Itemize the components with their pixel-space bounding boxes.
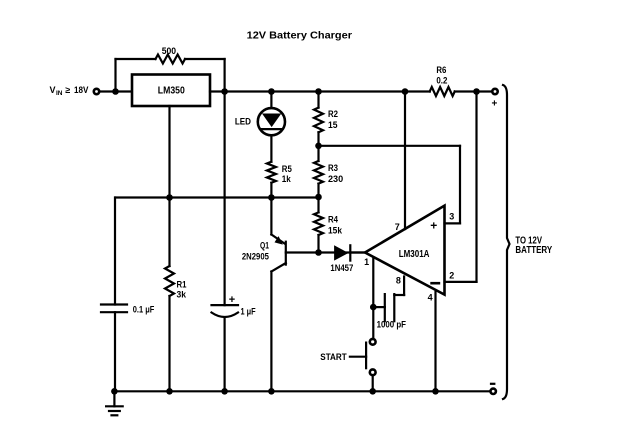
wire bottom rail xyxy=(114,390,490,392)
svg-text:≥: ≥ xyxy=(65,85,70,95)
node pin7 branch xyxy=(402,88,409,95)
node ground junction xyxy=(111,388,118,395)
svg-text:7: 7 xyxy=(395,222,400,232)
node collector bottom xyxy=(268,388,275,395)
brace TO 12V BATTERY xyxy=(503,85,552,399)
svg-text:R4: R4 xyxy=(328,214,338,224)
svg-text:R1: R1 xyxy=(177,279,187,289)
svg-text:0.1 μF: 0.1 μF xyxy=(133,305,155,315)
svg-text:1000 pF: 1000 pF xyxy=(377,320,407,330)
node R6 right junction xyxy=(473,88,480,95)
svg-text:Q1: Q1 xyxy=(260,241,269,251)
node LED branch xyxy=(268,88,275,95)
capacitor 1uF xyxy=(212,92,257,392)
resistor R3 xyxy=(314,161,343,212)
node R2 branch xyxy=(315,88,322,95)
svg-text:4: 4 xyxy=(428,293,433,303)
ground xyxy=(106,391,123,415)
svg-text:15: 15 xyxy=(328,120,338,130)
LED xyxy=(235,92,285,162)
node output junction xyxy=(221,88,228,95)
svg-text:2: 2 xyxy=(449,270,454,280)
svg-text:8: 8 xyxy=(396,276,401,286)
svg-text:1: 1 xyxy=(364,257,369,267)
node pin4 bottom xyxy=(432,388,439,395)
svg-text:0.2: 0.2 xyxy=(436,76,447,86)
resistor R2 xyxy=(314,92,338,162)
node input junction xyxy=(112,88,119,95)
resistor 500 feedback loop xyxy=(116,46,225,92)
svg-text:R6: R6 xyxy=(436,65,446,75)
svg-text:LM301A: LM301A xyxy=(399,249,430,260)
input terminal VIN xyxy=(50,85,100,97)
pin 3 wire xyxy=(319,146,461,224)
transistor Q1 2N2905 xyxy=(242,198,286,392)
svg-text:1N457: 1N457 xyxy=(330,263,353,273)
node emitter junction xyxy=(268,194,275,201)
wire base lead xyxy=(286,251,319,253)
node R2/R3 junction xyxy=(315,143,322,150)
resistor R5 xyxy=(267,162,292,198)
op-amp U1 LM301A xyxy=(365,206,445,295)
resistor R1 xyxy=(165,198,187,392)
svg-text:3: 3 xyxy=(449,212,454,222)
svg-text:2N2905: 2N2905 xyxy=(242,252,269,262)
node R4/base junction xyxy=(315,249,322,256)
wire LM350 output rail xyxy=(210,90,430,92)
svg-text:+: + xyxy=(430,219,437,233)
regulator U2 LM350 xyxy=(132,75,210,107)
svg-text:+: + xyxy=(492,99,498,110)
node R1 bottom xyxy=(166,388,173,395)
pin 7 xyxy=(395,92,405,232)
title xyxy=(247,30,352,42)
resistor R6 xyxy=(430,65,493,96)
svg-text:12V Battery Charger: 12V Battery Charger xyxy=(247,30,352,42)
node switch bottom xyxy=(369,388,376,395)
svg-text:1 μF: 1 μF xyxy=(241,307,257,317)
svg-text:V: V xyxy=(50,85,56,95)
pin 8 wire xyxy=(396,276,404,296)
svg-text:230: 230 xyxy=(328,174,343,184)
svg-text:15k: 15k xyxy=(328,226,343,236)
switch START xyxy=(320,339,375,391)
svg-text:LM350: LM350 xyxy=(158,86,185,97)
svg-text:IN: IN xyxy=(56,90,63,97)
pin 4 wire xyxy=(428,292,436,391)
svg-text:R2: R2 xyxy=(328,109,338,119)
svg-text:18V: 18V xyxy=(74,85,88,95)
capacitor 0.1uF xyxy=(101,198,155,392)
svg-text:LED: LED xyxy=(235,116,252,126)
pin 2 wire xyxy=(445,92,477,282)
diode D1 1N457 xyxy=(319,245,366,273)
resistor R4 xyxy=(314,212,343,252)
node R3/R4 junction xyxy=(315,194,322,201)
svg-text:R3: R3 xyxy=(328,163,338,173)
terminal + output xyxy=(492,89,498,110)
pin 1 wire xyxy=(350,253,373,340)
wire ADJ divider line xyxy=(116,106,319,198)
wire VIN to LM350 xyxy=(100,90,132,92)
svg-text:R5: R5 xyxy=(282,164,292,174)
node ADJ/R1 junction xyxy=(166,194,173,201)
node 1uF bottom xyxy=(221,388,228,395)
node pin1/cap junction xyxy=(370,304,377,311)
svg-text:START: START xyxy=(320,352,347,362)
terminal - output xyxy=(490,383,496,394)
svg-text:1k: 1k xyxy=(282,174,292,184)
svg-text:BATTERY: BATTERY xyxy=(515,245,552,256)
capacitor 1000pF xyxy=(373,294,406,329)
svg-text:3k: 3k xyxy=(177,290,187,300)
